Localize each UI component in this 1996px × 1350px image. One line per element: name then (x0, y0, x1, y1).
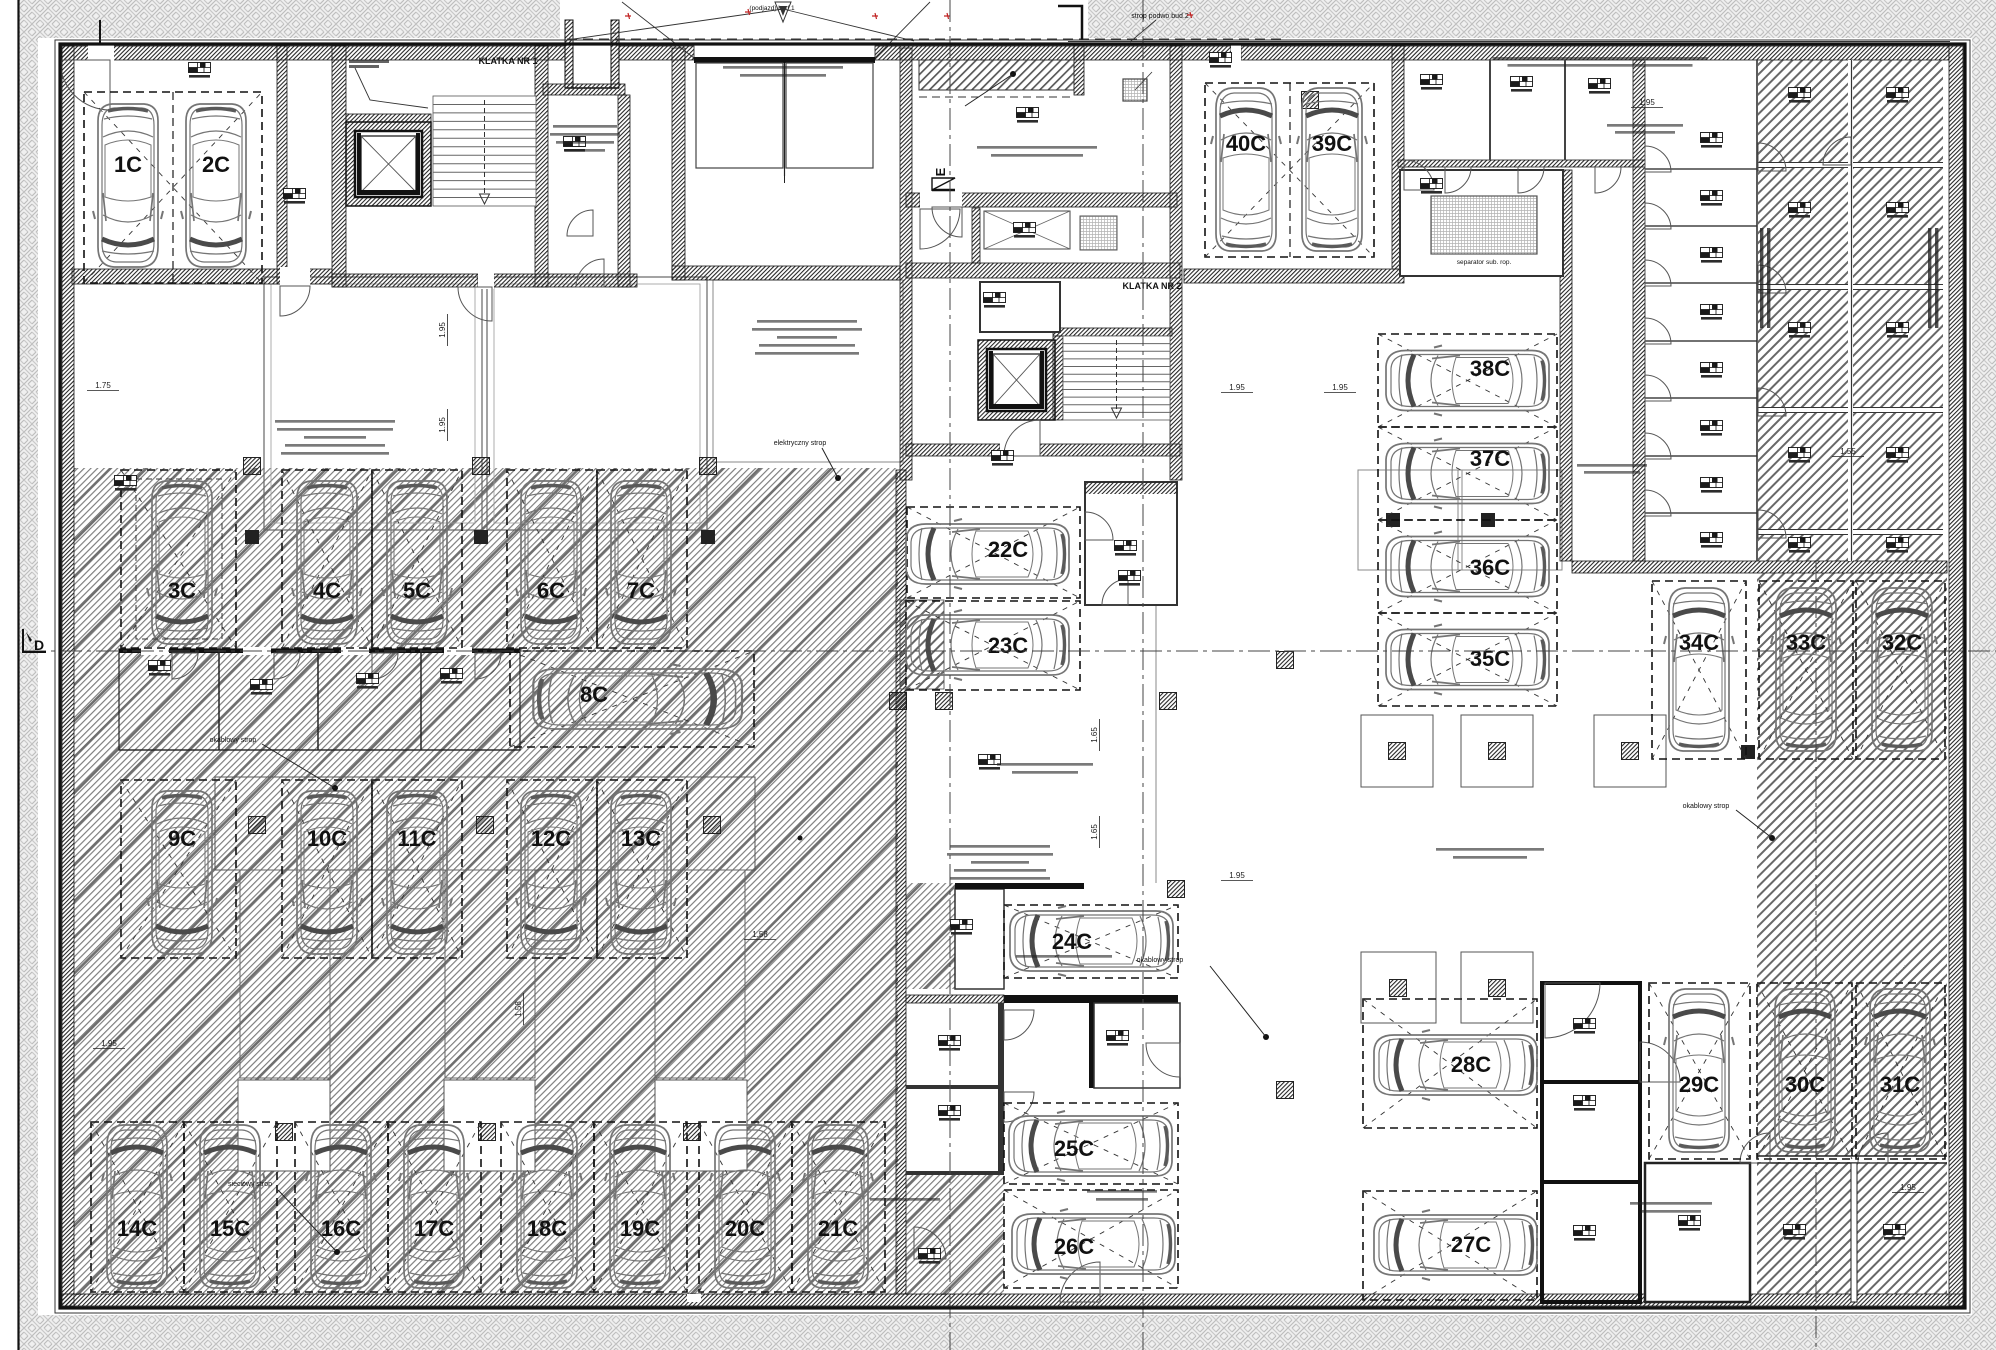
stamp przedsionek 2 (1115, 541, 1137, 556)
parking spot 22C outline (907, 507, 1080, 598)
door white cell 1 (1645, 146, 1671, 172)
svg-text:2C: 2C (202, 152, 230, 177)
stamp miejsce na rowery 2 (939, 1106, 961, 1121)
door room Z (1858, 1133, 1888, 1163)
top right storage cells hatch zone (1758, 60, 1943, 561)
car 12C (516, 791, 586, 954)
text block room A label (723, 66, 843, 69)
svg-text:15C: 15C (210, 1216, 250, 1241)
dim 1.95 (438, 314, 448, 346)
text block tiny (870, 1198, 940, 1201)
parking spot 24C outline (1004, 905, 1178, 978)
text block note under 24C (1016, 955, 1112, 958)
svg-text:6C: 6C (537, 578, 565, 603)
D marker (23, 629, 46, 652)
text block corridor note 2 (950, 845, 1050, 848)
columns mid row2 (249, 817, 266, 834)
parking spot 37C outline (1378, 427, 1557, 520)
parking spot 34C outline (1652, 581, 1746, 759)
stamp kl5 (1701, 363, 1723, 378)
free standing columns (244, 458, 261, 475)
section line D horizontal (24, 650, 1996, 652)
svg-text:22C: 22C (988, 537, 1028, 562)
bottom middle hatch room zone (906, 1174, 1004, 1295)
car 34C (1664, 588, 1734, 751)
core2 wall seg (906, 193, 920, 207)
car 26C (1012, 1209, 1175, 1279)
door hatched cell 2 (1758, 265, 1786, 293)
car 17C (399, 1125, 469, 1288)
text block core2 ramp note (977, 146, 1097, 149)
door white cell 3 (1645, 260, 1671, 286)
svg-text:okablowy strop: okablowy strop (210, 737, 257, 744)
core1 SE room east wall (618, 95, 630, 287)
door core1 corridor (576, 259, 604, 287)
ramp side wall (1074, 44, 1084, 95)
elevator shaft core 1 (346, 122, 431, 206)
svg-text:25C: 25C (1054, 1136, 1094, 1161)
stamp kl4 (1701, 305, 1723, 320)
car 38C (1386, 346, 1549, 416)
small hatch patch left of 23C (900, 600, 944, 689)
svg-text:1.95: 1.95 (1332, 383, 1348, 392)
door 22C room lower (1102, 579, 1128, 605)
dim 1.95 (1221, 383, 1253, 393)
stamp kh9 (1887, 203, 1909, 218)
svg-text:1.95: 1.95 (438, 417, 447, 433)
rooms right of bike rooms (1645, 1163, 1750, 1302)
svg-text:separator sub. rop.: separator sub. rop. (1457, 259, 1512, 266)
stamp miejsce na rowery 8 (1574, 1226, 1596, 1241)
text block cells note mid (1607, 124, 1683, 127)
svg-text:1.55: 1.55 (1840, 447, 1856, 456)
door core1 south (458, 287, 492, 321)
text block cells top note (1493, 57, 1708, 60)
dim 1.95 (1892, 1183, 1924, 1193)
stamp kh2 (1789, 203, 1811, 218)
svg-text:4C: 4C (313, 578, 341, 603)
stamp miejsce na rowery 13 (149, 661, 171, 676)
svg-text:13C: 13C (621, 826, 661, 851)
core2 north room south wall (960, 193, 1177, 207)
svg-text:29C: 29C (1679, 1072, 1719, 1097)
dim 1.95 (1631, 98, 1663, 108)
core1 south wall e (492, 274, 637, 287)
door bike room L2 (274, 653, 300, 679)
parking spot 29C outline (1649, 983, 1750, 1159)
svg-text:26C: 26C (1054, 1234, 1094, 1259)
room right of 22C (1085, 482, 1177, 605)
core1 west wall (332, 46, 346, 287)
door white cell 4 (1645, 318, 1671, 344)
dim 1.65 (1090, 719, 1100, 751)
svg-text:31C: 31C (1880, 1072, 1920, 1097)
stamp pom. wentylatorni i hydroforni (1017, 108, 1039, 123)
parking spot 9C outline (121, 780, 236, 958)
dim 1.95 (438, 409, 448, 441)
text block corridor note 1 (997, 763, 1093, 766)
cells south wall (1572, 561, 1947, 573)
parking spot 31C outline (1856, 983, 1945, 1159)
core2 east wall (1170, 46, 1182, 480)
stamp kh11 (1887, 448, 1909, 463)
car 5C (382, 481, 452, 644)
dim 1.58 (744, 930, 776, 940)
text block text room B (757, 320, 857, 323)
core2 south wall w (906, 444, 1000, 456)
top wall west segment (62, 46, 565, 60)
svg-text:KLATKA NR 1: KLATKA NR 1 (479, 56, 538, 66)
svg-text:1.95: 1.95 (438, 322, 447, 338)
door 1C room (60, 60, 110, 110)
car 6C (516, 481, 586, 644)
shaft outlines between rows (240, 870, 330, 1078)
black partition walls mid-bottom (1004, 995, 1178, 1003)
hatch zone east wall (896, 470, 906, 1294)
svg-text:12C: 12C (531, 826, 571, 851)
door white cell 2 (1645, 203, 1671, 229)
door bike room 1 (1004, 1010, 1034, 1040)
dim 1.95 (93, 1039, 125, 1049)
dim 1.95 (1221, 871, 1253, 881)
left sheet margin + frame line (0, 0, 18, 1350)
door hatched corner cell (1823, 137, 1851, 165)
stamp kl3 (1701, 248, 1723, 263)
car 22C (906, 519, 1069, 589)
svg-text:38C: 38C (1470, 356, 1510, 381)
bike rooms row mid-left (119, 649, 520, 750)
parking spot 20C outline (699, 1122, 792, 1292)
stamp kl2 (1701, 191, 1723, 206)
stamp kh10 (1887, 323, 1909, 338)
stamp miejsce na rowery 1 (951, 920, 973, 935)
big double door of room A (694, 57, 875, 63)
stamp stamp hatch TL (115, 476, 137, 491)
room D crossed box + grate (984, 211, 1070, 249)
car 29C (1664, 989, 1734, 1152)
svg-text:okablowy strop: okablowy strop (1683, 803, 1730, 810)
left perimeter wall (62, 46, 74, 1306)
svg-text:1.58: 1.58 (752, 930, 768, 939)
dim 1.65 (1090, 816, 1100, 848)
top wall segment (619, 46, 694, 60)
door bike room L3 (372, 653, 398, 679)
car 25C (1009, 1111, 1172, 1181)
stamp miejsce na rowery 0 (919, 1249, 941, 1264)
entrance ramp hatch (919, 60, 1074, 90)
car 1C (93, 104, 163, 267)
car 37C (1386, 439, 1549, 509)
door core2 north room (920, 209, 960, 249)
text block wygrodzenie note mid (1087, 1190, 1157, 1193)
stamp separator stamp (1421, 179, 1443, 194)
svg-text:1.95: 1.95 (1900, 1183, 1916, 1192)
svg-text:40C: 40C (1226, 131, 1266, 156)
car 40C (1211, 88, 1281, 251)
cells west wall (1392, 46, 1404, 269)
red survey marks (625, 13, 631, 19)
door bike room L1 (172, 653, 198, 679)
stamp stamp core1 SE (564, 137, 586, 152)
door bike room BR1 (1545, 983, 1600, 1038)
svg-text:E: E (933, 167, 948, 176)
door core2 south (1004, 420, 1040, 456)
door top cell 1 (1445, 167, 1471, 193)
core2 south wall e (1040, 444, 1180, 456)
stamp pom. gospodarcze (1014, 223, 1036, 238)
text block right zone note (1436, 848, 1544, 851)
vertical notes cells (1760, 228, 1763, 328)
stamp klatka schodowa (992, 451, 1014, 466)
stamp kl7 (1701, 478, 1723, 493)
svg-text:sieciowy strop: sieciowy strop (228, 1181, 272, 1188)
big room west wall (672, 48, 685, 280)
svg-text:17C: 17C (414, 1216, 454, 1241)
car 3C (147, 481, 217, 644)
car 33C (1771, 588, 1841, 751)
svg-text:3C: 3C (168, 578, 196, 603)
svg-text:KLATKA NR 2: KLATKA NR 2 (1123, 281, 1182, 291)
stair2 west wall (1053, 336, 1063, 420)
core1 SE room north wall (543, 84, 625, 95)
svg-text:18C: 18C (527, 1216, 567, 1241)
niche 39C/40C south wall (1184, 269, 1404, 283)
door separator room (1404, 160, 1434, 190)
cells inner west wall (1560, 170, 1572, 561)
stamp kh4 (1789, 448, 1811, 463)
door from 1C/2C room (280, 286, 310, 316)
parking spot 10C outline (282, 780, 372, 958)
svg-text:27C: 27C (1451, 1232, 1491, 1257)
stamp miejsce na rowery 12 (1884, 1225, 1906, 1240)
parking spot 35C outline (1378, 613, 1557, 706)
car 16C (306, 1125, 376, 1288)
door bike room 2 (1004, 1092, 1034, 1122)
svg-text:9C: 9C (168, 826, 196, 851)
parking spot 8C outline (510, 651, 754, 747)
svg-text:21C: 21C (818, 1216, 858, 1241)
svg-text:5C: 5C (403, 578, 431, 603)
big room south wall (672, 266, 900, 280)
top cells south wall (1398, 160, 1645, 167)
svg-text:23C: 23C (988, 633, 1028, 658)
stamp miejsce na rowery 14 (251, 680, 273, 695)
car 7C (606, 481, 676, 644)
elevator shaft core 2 (978, 340, 1055, 420)
car 20C (710, 1125, 780, 1288)
svg-text:okablowy strop: okablowy strop (1137, 957, 1184, 964)
stair2 north wall (1053, 328, 1172, 336)
parking spot 18C outline (501, 1122, 594, 1292)
stamp przedsionek (984, 293, 1006, 308)
stamp miejsce na rowery 7 (1574, 1019, 1596, 1034)
roof outline triangle above (567, 2, 930, 58)
parking spot 11C outline (372, 780, 462, 958)
top wall centre segment (875, 46, 1231, 60)
parking spot 13C outline (597, 780, 687, 958)
door room 22C side (1085, 512, 1113, 540)
parking spot 7C outline (597, 470, 687, 648)
car 31C (1865, 989, 1935, 1152)
car 24C (1010, 906, 1173, 976)
vent room south wall (346, 114, 431, 122)
parking spot 25C outline (1004, 1103, 1178, 1184)
stamp kom lok c (1589, 79, 1611, 94)
car 10C (292, 791, 362, 954)
parking spot 27C outline (1363, 1191, 1537, 1300)
above ground outlines top (567, 38, 1282, 40)
svg-text:1.75: 1.75 (95, 381, 111, 390)
parking spot 28C outline (1363, 999, 1537, 1128)
room 1C/2C east wall (277, 46, 287, 284)
svg-text:24C: 24C (1052, 929, 1092, 954)
light well shaft (565, 20, 619, 88)
room above hatch (text room) (713, 280, 903, 462)
car 32C (1867, 588, 1937, 751)
parking spot 4C outline (282, 470, 372, 648)
parking spot 15C outline (184, 1122, 277, 1292)
car 13C (606, 791, 676, 954)
svg-text:28C: 28C (1451, 1052, 1491, 1077)
parking spot 36C outline (1378, 520, 1557, 613)
stamp kh1 (1789, 88, 1811, 103)
right lower hatch zone (1757, 573, 1947, 1294)
parking spot 30C outline (1757, 983, 1852, 1159)
svg-text:1.95: 1.95 (1639, 98, 1655, 107)
stamp kh8 (1887, 88, 1909, 103)
parking spot 14C outline (91, 1122, 184, 1292)
door hatched cell 3 (1758, 388, 1786, 416)
parking spot 23C outline (906, 601, 1080, 690)
parking spot 6C outline (507, 470, 597, 648)
parking spot 17C outline (388, 1122, 481, 1292)
car 35C (1386, 625, 1549, 695)
inner dashed box spot 3C (136, 479, 222, 639)
svg-text:8C: 8C (580, 682, 608, 707)
stamp miejsce na rowery 10 (1679, 1216, 1701, 1231)
lane edge line (1155, 600, 1157, 883)
stamp kh5 (1789, 538, 1811, 553)
car 15C (195, 1125, 265, 1288)
svg-text:19C: 19C (620, 1216, 660, 1241)
svg-text:1.65: 1.65 (1090, 824, 1099, 840)
svg-text:14C: 14C (117, 1216, 157, 1241)
parking spot 12C outline (507, 780, 597, 958)
room D west wall (972, 208, 980, 263)
dim 1.55 (1832, 447, 1864, 457)
stamp kl8 (1701, 533, 1723, 548)
door room D (932, 207, 962, 237)
door white cell 6 (1645, 433, 1671, 459)
room 1C/2C south wall (72, 269, 332, 284)
parking spot 1C/2C zone outline (84, 92, 262, 283)
door bottom corridor (1060, 1262, 1100, 1302)
text block core1 SE note (553, 125, 617, 128)
dim 1.75 (87, 381, 119, 391)
top wall east segment (1241, 46, 1949, 60)
car 4C (292, 481, 362, 644)
dim 1.58 (514, 993, 524, 1025)
door hatched cell 1 (1758, 143, 1786, 171)
stamp kl1 (1701, 133, 1723, 148)
staircase KLATKA NR 1 (433, 96, 536, 206)
svg-text:1.95: 1.95 (1229, 383, 1245, 392)
parking spot 32C outline (1856, 581, 1945, 759)
car 14C (102, 1125, 172, 1288)
stamp miejsce na rowery 17 (284, 189, 306, 204)
parking spot 39C/40C zone outline (1205, 83, 1374, 257)
section line vertical x=1816 (1815, 560, 1817, 1350)
car 9C (147, 791, 217, 954)
door white cell 7 (1645, 490, 1671, 516)
stamp miejsce na rowery 11 (1784, 1225, 1806, 1240)
svg-text:11C: 11C (397, 826, 436, 851)
stamp kom lok a (1421, 75, 1443, 90)
section line vertical x=1143 (1142, 0, 1144, 1350)
svg-text:36C: 36C (1470, 555, 1510, 580)
hatch patch left of 24C (906, 883, 955, 989)
storage cell partitions top right (1758, 163, 1943, 168)
staircase KLATKA NR 2 (1063, 336, 1170, 420)
parking spot 16C outline (295, 1122, 388, 1292)
separator room (1400, 170, 1563, 276)
bike rooms north wall (906, 995, 1004, 1003)
text block wygrodzenie note right (1630, 1202, 1712, 1205)
core1 south wall w (332, 274, 478, 287)
grated box (1123, 79, 1147, 101)
door bike room BR2 (1640, 1042, 1680, 1082)
door hatched cell 4 (1758, 510, 1786, 538)
svg-text:1.58: 1.58 (514, 1001, 523, 1017)
door bike room L4 (475, 653, 501, 679)
svg-text:37C: 37C (1470, 446, 1510, 471)
bike storage rooms bottom right (black walls) (1542, 983, 1640, 1302)
parking spot 21C outline (792, 1122, 885, 1292)
stamp miejsce na rowery 18 (189, 63, 211, 78)
svg-text:10C: 10C (307, 826, 347, 851)
bike room 1 (955, 889, 1004, 989)
room right of bike rooms mid-bottom (1094, 1003, 1180, 1088)
cells corridor west wall (1633, 60, 1645, 561)
pad outlines mid right (1358, 470, 1462, 570)
stamp (1119, 571, 1141, 586)
parking spot 3C outline (121, 470, 236, 648)
svg-text:D: D (34, 637, 44, 653)
door SE room (567, 210, 593, 236)
stamp kom lok b (1511, 77, 1533, 92)
svg-text:16C: 16C (321, 1216, 361, 1241)
parking spot 26C outline (1004, 1190, 1178, 1288)
leader: sieciowy strop left (336, 1310, 338, 1312)
svg-text:39C: 39C (1312, 131, 1352, 156)
car 30C (1770, 989, 1840, 1152)
svg-text:7C: 7C (627, 578, 655, 603)
core2 mid wall (906, 263, 1180, 278)
svg-text:1.95: 1.95 (1229, 871, 1245, 880)
parking spot 38C outline (1378, 334, 1557, 427)
bottom perimeter wall (62, 1294, 1963, 1306)
svg-text:1.65: 1.65 (1090, 727, 1099, 743)
aisle opening thin outline row2 (215, 777, 755, 870)
door right room mid (1146, 1043, 1180, 1077)
vent room leader (355, 68, 428, 108)
section line vertical x=950 (949, 0, 951, 1350)
text block text rect1 (275, 420, 395, 423)
door white cell 5 (1645, 375, 1671, 401)
ceiling opening rect 2 (487, 277, 707, 462)
stamp stamp niche (1210, 53, 1232, 68)
car 11C (382, 791, 452, 954)
